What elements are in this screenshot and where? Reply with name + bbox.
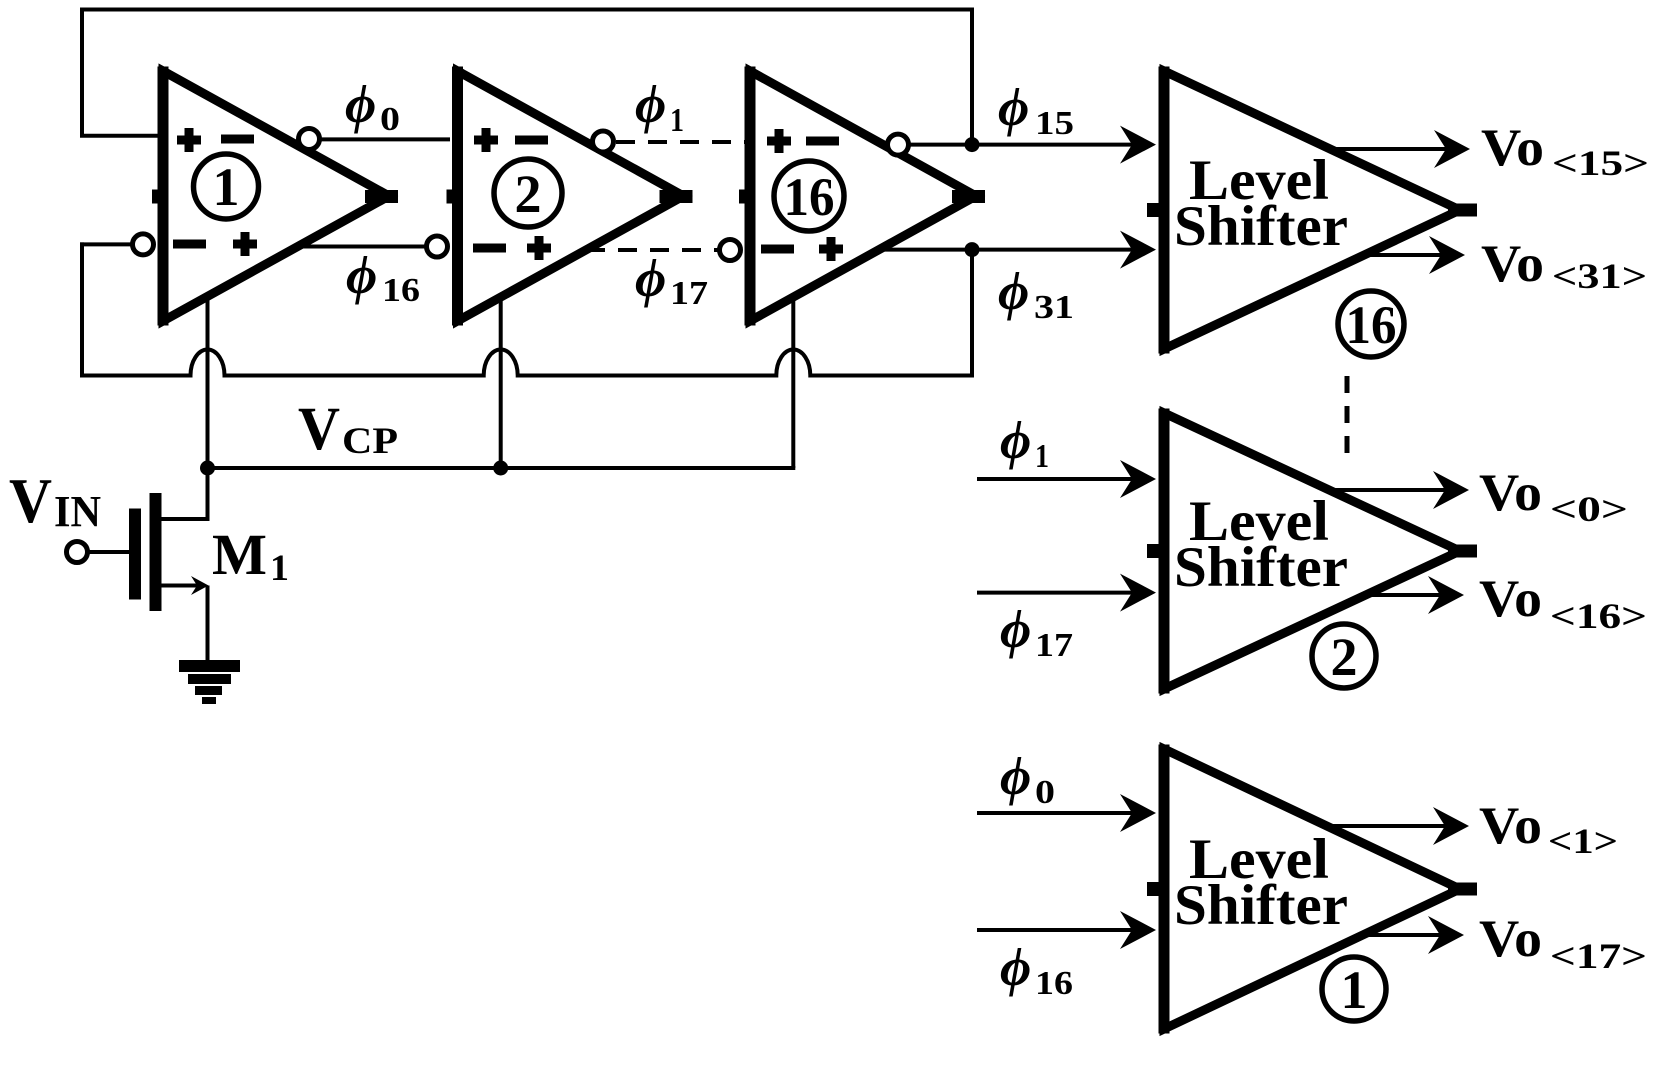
delay cell 2 triangle (458, 71, 684, 321)
wire dashed between level shifter 16 and 2 (1345, 376, 1350, 466)
svg-text:Vo: Vo (1479, 910, 1542, 968)
wire VCP vertical from stage 16 (791, 300, 795, 468)
svg-text:ϕ: ϕ (345, 74, 376, 134)
label phi16 (346, 245, 420, 309)
wire phi0 input to level shifter 1 (977, 811, 1132, 815)
level shifter 2 number circle (1312, 624, 1376, 688)
wire left feedback vertical upper (80, 8, 84, 138)
delay cell 1 minus mark bottom (173, 240, 206, 249)
level shifter 2 bias stub (1147, 544, 1160, 558)
svg-text:V: V (9, 465, 52, 536)
transistor M1 drain wire (158, 468, 208, 519)
svg-text:16: 16 (1346, 295, 1397, 355)
delay cell 16 number circle (774, 161, 844, 231)
arrowhead phi15 (1120, 126, 1156, 164)
transistor M1 gate bar (129, 509, 141, 600)
svg-text:ϕ: ϕ (635, 74, 666, 134)
delay cell 1 bias stub (152, 190, 165, 204)
svg-text:V: V (298, 396, 340, 463)
svg-text:ϕ: ϕ (1000, 746, 1031, 806)
arrowhead Vo1 (1433, 807, 1469, 845)
wire phi17 input to level shifter 2 (977, 591, 1132, 595)
delay cell 1 triangle (163, 71, 389, 321)
delay cell 16 minus mark bottom (761, 245, 794, 254)
label phi31 (998, 261, 1074, 326)
delay cell 16 output stub (952, 190, 985, 203)
svg-text:<31>: <31> (1552, 256, 1647, 296)
arrowhead Vo0 (1433, 471, 1469, 509)
label Vo17 (1479, 910, 1647, 976)
level shifter 16 bias stub (1147, 203, 1160, 217)
level shifter 1 number circle (1322, 957, 1386, 1021)
svg-text:16: 16 (382, 272, 420, 309)
svg-text:IN: IN (54, 487, 101, 536)
wire left feedback vertical lower (80, 242, 84, 377)
wire VCP horizontal (208, 466, 796, 470)
arrowhead Vo15 (1434, 130, 1470, 168)
label Vo15 (1481, 119, 1649, 183)
svg-text:Vo: Vo (1479, 797, 1542, 855)
arrowhead phi17 input (1120, 574, 1156, 612)
wire phi17 dashed stage2 to stage16 bubble (586, 248, 719, 252)
label VCP (298, 396, 398, 463)
svg-text:1: 1 (1341, 960, 1368, 1020)
delay cell 2 bias stub (447, 190, 460, 204)
delay cell 16 plus mark bottom (819, 237, 843, 261)
wire Vo16 output (1366, 593, 1441, 597)
delay cell 1 plus mark top (177, 128, 201, 152)
wire right feedback vertical lower (970, 250, 974, 378)
wire phi15 to level shifter 16 (909, 143, 1135, 147)
wire bottom feedback line with hops (80, 350, 972, 376)
label level shifter 2 text (1174, 490, 1348, 599)
label phi1 input (1000, 410, 1049, 475)
svg-text:ϕ: ϕ (346, 245, 377, 305)
wire top feedback line (80, 8, 974, 12)
arrowhead Vo31 (1429, 236, 1465, 274)
label phi17 input (1000, 599, 1073, 664)
label level shifter 16 text (1174, 149, 1348, 258)
svg-text:2: 2 (1331, 627, 1358, 687)
svg-text:2: 2 (515, 164, 542, 224)
delay cell 1 minus mark top (221, 135, 254, 144)
delay cell 1 output stub (365, 190, 398, 203)
label phi15 (998, 77, 1074, 142)
delay cell 2 output bubble (593, 131, 614, 152)
arrowhead phi0 input (1120, 794, 1156, 832)
wire VCP vertical from stage 1 (206, 298, 210, 468)
svg-text:Vo: Vo (1481, 235, 1544, 293)
svg-text:16: 16 (784, 167, 835, 227)
label Vo0 (1479, 464, 1628, 529)
svg-text:<1>: <1> (1548, 821, 1618, 861)
svg-text:ϕ: ϕ (998, 261, 1029, 321)
svg-text:17: 17 (1035, 627, 1073, 664)
delay cell 1 number circle (194, 154, 259, 219)
wire into minus input bubble of stage 1 (80, 242, 133, 246)
svg-text:<17>: <17> (1550, 936, 1647, 976)
svg-text:31: 31 (1034, 289, 1074, 326)
svg-text:ϕ: ϕ (1000, 599, 1031, 659)
wire Vo15 output (1327, 147, 1446, 151)
level shifter 16 triangle (1164, 71, 1460, 349)
wire phi0 stage1 to stage2 (320, 137, 450, 141)
level shifter 1 tip stub (1448, 883, 1477, 896)
wire phi31 to level shifter 16 (879, 248, 1135, 252)
delay cell 16 plus mark top (767, 129, 791, 153)
delay cell 1 minus input bubble (133, 234, 154, 255)
label level shifter 1 text (1174, 828, 1348, 937)
wire Vo31 output (1366, 253, 1441, 257)
transistor M1 gate wire (89, 550, 129, 554)
svg-text:17: 17 (670, 275, 708, 312)
label M1 (212, 522, 289, 589)
svg-text:Shifter: Shifter (1174, 195, 1348, 258)
arrowhead phi16 input (1120, 911, 1156, 949)
delay cell 1 plus mark bottom (233, 232, 257, 256)
wire into plus input of stage 1 (80, 134, 168, 138)
svg-text:Shifter: Shifter (1174, 874, 1348, 937)
wire Vo0 output (1327, 488, 1446, 492)
label phi0 input (1000, 746, 1055, 811)
level shifter 1 bias stub (1147, 882, 1160, 896)
svg-text:Vo: Vo (1479, 570, 1542, 628)
svg-text:ϕ: ϕ (998, 77, 1029, 137)
wire Vo17 output (1366, 933, 1441, 937)
wire VCP vertical from stage 2 (499, 299, 503, 468)
wire phi16 input to level shifter 1 (977, 928, 1132, 932)
label Vo31 (1481, 235, 1647, 296)
svg-text:1: 1 (213, 157, 240, 217)
level shifter 2 triangle (1164, 413, 1460, 689)
wire right feedback vertical upper (970, 8, 974, 145)
transistor M1 source wire (158, 586, 208, 661)
delay cell 16 triangle (750, 71, 976, 321)
level shifter 16 number circle (1338, 291, 1404, 357)
svg-text:ϕ: ϕ (635, 248, 666, 308)
delay cell 2 plus mark top (474, 128, 498, 152)
svg-text:16: 16 (1035, 965, 1073, 1002)
wire phi1 input to level shifter 2 (977, 477, 1132, 481)
node junction VCP stage2 (493, 461, 508, 476)
level shifter 2 tip stub (1448, 545, 1477, 558)
svg-text:Vo: Vo (1479, 464, 1542, 522)
svg-text:M: M (212, 522, 267, 587)
label Vo1 (1479, 797, 1618, 861)
label phi0 (345, 74, 400, 138)
wire phi16 stage1 to stage2 bubble (300, 245, 427, 249)
svg-text:Vo: Vo (1481, 119, 1544, 177)
svg-text:<0>: <0> (1550, 489, 1628, 529)
svg-text:CP: CP (342, 421, 398, 462)
label phi16 input (1000, 937, 1073, 1002)
wire Vo1 output (1327, 824, 1446, 828)
node junction phi15 feedback (965, 137, 980, 152)
svg-text:ϕ: ϕ (1000, 410, 1031, 470)
delay cell 1 output bubble (299, 129, 320, 150)
arrowhead phi31 (1120, 231, 1156, 269)
svg-text:<15>: <15> (1552, 143, 1649, 183)
delay cell 16 output bubble (888, 134, 909, 155)
arrowhead Vo16 (1428, 576, 1464, 614)
svg-text:15: 15 (1035, 105, 1074, 142)
delay cell 2 minus input bubble (427, 236, 448, 257)
node junction VCP stage1 (200, 461, 215, 476)
svg-text:ϕ: ϕ (1000, 937, 1031, 997)
svg-text:1: 1 (270, 548, 289, 589)
wire phi1 dashed stage2 to stage16 (616, 140, 748, 144)
label Vo16 (1479, 570, 1647, 636)
svg-text:1: 1 (1035, 438, 1049, 475)
delay cell 16 minus mark top (806, 137, 839, 146)
delay cell 16 bias stub (739, 190, 752, 204)
level shifter 16 tip stub (1448, 204, 1477, 217)
transistor M1 channel bar (150, 493, 162, 611)
delay cell 2 output stub (660, 190, 693, 203)
label phi1 (635, 74, 684, 139)
level shifter 1 triangle (1164, 749, 1460, 1029)
svg-text:Shifter: Shifter (1174, 536, 1348, 599)
svg-text:1: 1 (670, 102, 684, 139)
ground (179, 660, 240, 704)
arrowhead Vo17 (1428, 916, 1464, 954)
delay cell 2 minus mark bottom (473, 244, 506, 253)
node junction phi31 feedback (965, 242, 980, 257)
delay cell 2 plus mark bottom (527, 236, 551, 260)
svg-text:0: 0 (1035, 774, 1055, 811)
svg-text:0: 0 (380, 101, 400, 138)
label phi17 (635, 248, 708, 312)
svg-text:<16>: <16> (1550, 596, 1647, 636)
transistor M1 source arrowhead (191, 576, 209, 595)
input bubble VIN (67, 542, 88, 563)
delay cell 2 minus mark top (515, 136, 548, 145)
label VIN (9, 465, 101, 536)
delay cell 16 minus input bubble (720, 240, 741, 261)
delay cell 2 number circle (494, 159, 562, 227)
arrowhead phi1 input (1120, 460, 1156, 498)
